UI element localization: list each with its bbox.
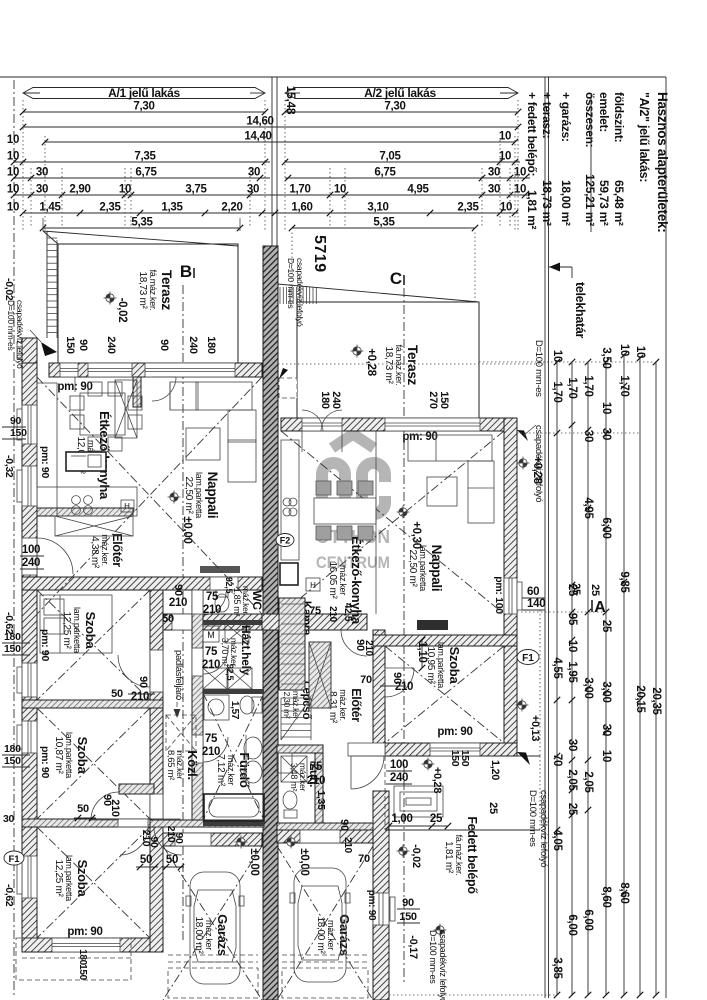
double door arcs A/2 terrace door (302, 410, 323, 431)
bedroom1-2 wall (22, 700, 163, 708)
svg-text:Szoba: Szoba (447, 647, 462, 685)
svg-text:lam.parketta: lam.parketta (64, 855, 74, 901)
south wall A/1 bedroom3 (22, 938, 163, 952)
svg-text:fá.máz.ker.: fá.máz.ker. (148, 270, 158, 311)
pantry shelves kamra (279, 598, 305, 690)
svg-text:5719: 5719 (311, 235, 328, 273)
svg-text:1,45: 1,45 (39, 202, 61, 214)
svg-text:75: 75 (310, 761, 323, 773)
east wall A/2 (504, 418, 517, 756)
svg-text:60: 60 (527, 586, 539, 598)
svg-text:1,35: 1,35 (315, 790, 327, 810)
svg-text:95: 95 (566, 613, 578, 626)
svg-text:10: 10 (499, 151, 511, 163)
svg-text:összesen:: összesen: (583, 92, 597, 147)
svg-text:75: 75 (206, 591, 219, 603)
stove A/2 (283, 498, 291, 506)
bottom dashed porch outline left (16, 938, 131, 980)
svg-text:25: 25 (570, 583, 582, 595)
svg-text:Előtér: Előtér (110, 533, 124, 567)
svg-text:Fedett belépő: Fedett belépő (465, 816, 479, 894)
centre wall (263, 246, 278, 1000)
top border line (0, 76, 666, 78)
svg-text:10: 10 (7, 151, 19, 163)
svg-text:lam.parketta: lam.parketta (72, 607, 82, 653)
door arc kamra (341, 630, 367, 656)
closet eloter A/1 (55, 516, 133, 536)
svg-text:7,12 m²: 7,12 m² (215, 754, 226, 787)
svg-text:100: 100 (390, 759, 408, 771)
right dim chain 3 (587, 362, 589, 995)
entry door opening west wall (22, 538, 37, 575)
right dim chain 2 (571, 362, 573, 995)
terrace A/1 outline (58, 244, 238, 363)
section line C dash-dot (403, 288, 405, 985)
svg-text:10: 10 (7, 167, 19, 179)
svg-text:5,35: 5,35 (131, 217, 153, 229)
corridor west wall (150, 590, 163, 952)
svg-text:+0,28: +0,28 (531, 456, 543, 485)
sofa A/2 (408, 435, 492, 461)
svg-text:1,57: 1,57 (229, 701, 240, 720)
svg-text:csapadékvíz lefolyó: csapadékvíz lefolyó (438, 930, 448, 1000)
svg-text:90: 90 (402, 897, 414, 909)
svg-text:1,70: 1,70 (566, 377, 578, 398)
svg-text:12,25 m²: 12,25 m² (61, 611, 72, 649)
svg-text:pm: 100: pm: 100 (493, 576, 505, 614)
svg-text:50: 50 (162, 613, 174, 625)
svg-text:150: 150 (4, 643, 21, 655)
svg-text:92,5: 92,5 (224, 577, 234, 594)
toilet furdo (240, 696, 254, 714)
svg-text:2,05: 2,05 (566, 769, 578, 791)
svg-text:92,5: 92,5 (225, 664, 235, 681)
door arc szoba2 (91, 792, 119, 820)
bedroom2-3 wall (22, 819, 163, 827)
svg-text:6,75: 6,75 (135, 167, 157, 179)
svg-text:75: 75 (205, 733, 218, 745)
vertical extension lines plan to top dims (42, 218, 44, 231)
svg-text:H: H (124, 502, 130, 511)
svg-text:50: 50 (166, 854, 178, 866)
svg-text:50: 50 (111, 688, 123, 700)
svg-text:12,25 m²: 12,25 m² (53, 859, 64, 897)
svg-text:75: 75 (309, 605, 321, 617)
svg-text:10: 10 (7, 202, 19, 214)
svg-text:WC: WC (250, 590, 264, 610)
svg-text:2,05: 2,05 (582, 771, 594, 793)
svg-text:4,38 m²: 4,38 m² (89, 536, 100, 569)
west wall A/1 (22, 363, 37, 952)
svg-text:Garázs: Garázs (215, 914, 230, 956)
dim 1,10 szoba A/2 (421, 640, 423, 668)
svg-text:D=100 mm-es: D=100 mm-es (527, 790, 538, 847)
svg-text:Hasznos alapterületek:: Hasznos alapterületek: (655, 92, 670, 232)
svg-text:10: 10 (600, 402, 612, 414)
svg-text:10: 10 (551, 350, 563, 362)
svg-text:30: 30 (600, 724, 612, 736)
wall pier szoba2 (119, 784, 154, 794)
ceiling cross furdo (203, 693, 264, 820)
svg-text:máz.ker: máz.ker (204, 920, 214, 950)
svg-text:Közl.: Közl. (185, 750, 200, 780)
svg-text:Előtér: Előtér (349, 688, 363, 722)
svg-text:240: 240 (22, 557, 40, 569)
svg-text:150: 150 (399, 911, 417, 923)
svg-text:csapadékvíz lefolyó: csapadékvíz lefolyó (295, 258, 305, 327)
svg-text:-0,32: -0,32 (3, 455, 15, 478)
kitchen sink A/1 (66, 452, 106, 471)
svg-text:10: 10 (566, 640, 578, 652)
svg-text:Terasz: Terasz (159, 270, 174, 311)
svg-text:3,75: 3,75 (185, 184, 207, 196)
svg-text:90: 90 (77, 339, 89, 351)
svg-text:máz.ker.: máz.ker. (338, 689, 348, 721)
svg-text:lam.parketta: lam.parketta (64, 732, 74, 778)
level +0,13 right (518, 701, 526, 709)
bedroom top wall A/1 (22, 577, 262, 590)
svg-text:210: 210 (202, 659, 220, 671)
svg-text:22,50 m²: 22,50 m² (407, 549, 418, 587)
svg-text:1,10: 1,10 (416, 641, 428, 662)
level 0,00 garage1 (237, 838, 245, 846)
bathtub furdo (204, 794, 264, 821)
svg-text:2,20: 2,20 (221, 202, 242, 214)
garage A/1 car (186, 872, 244, 984)
svg-text:10: 10 (514, 167, 526, 179)
svg-text:1,81 m²: 1,81 m² (443, 841, 454, 874)
svg-text:fá.máz.ker.: fá.máz.ker. (454, 835, 464, 876)
svg-text:25: 25 (430, 813, 443, 825)
section line B dash-dot (182, 285, 184, 940)
door arc szoba1 (118, 655, 150, 687)
svg-text:-0,17: -0,17 (407, 935, 419, 959)
dotted line terrace2 (266, 363, 545, 365)
svg-text:3,85: 3,85 (551, 957, 563, 979)
hazt bottom wall (203, 689, 264, 694)
svg-text:2,30 m²: 2,30 m² (282, 692, 292, 719)
garage A/2 top wall (277, 830, 373, 843)
door arc WC (203, 592, 226, 615)
F2 mark (276, 534, 294, 547)
level +0,30 A/2 (399, 508, 407, 516)
svg-text:3,10: 3,10 (367, 202, 388, 214)
svg-text:18,00 m²: 18,00 m² (193, 916, 204, 954)
unit2 entrance opening (348, 743, 385, 756)
H box A/1 (121, 500, 134, 512)
svg-text:42,5: 42,5 (342, 603, 353, 622)
svg-text:3,48 m²: 3,48 m² (289, 763, 299, 792)
toilet WC A/1 (215, 594, 229, 612)
svg-text:pm: 90: pm: 90 (67, 926, 102, 938)
svg-text:150: 150 (449, 750, 461, 767)
wc bottom wall (203, 620, 264, 625)
nappali bottom wall (150, 614, 367, 630)
svg-text:10: 10 (334, 184, 346, 196)
kitchen-nappali stub wall A/1 (133, 377, 141, 407)
dimension row 5,35 / 5,35 (43, 227, 240, 229)
svg-text:70: 70 (551, 754, 563, 766)
svg-text:75: 75 (205, 646, 218, 658)
door arc terrace A/1 (152, 377, 176, 401)
svg-text:4,95: 4,95 (582, 497, 594, 519)
svg-text:18,73 m²: 18,73 m² (137, 271, 148, 309)
svg-text:30: 30 (36, 184, 48, 196)
terrace A/1 roof diagonal (43, 231, 238, 246)
svg-text:4,95: 4,95 (407, 184, 429, 196)
svg-text:6,00: 6,00 (600, 517, 612, 538)
garage A/2 ceiling cross (277, 846, 373, 1000)
west wall stub terrace (22, 338, 37, 363)
bed szoba1 (40, 595, 112, 653)
twin sinks furdo (244, 737, 262, 759)
svg-text:90: 90 (137, 676, 149, 688)
svg-text:máz.ker: máz.ker (338, 565, 348, 595)
coffee table A/2 (427, 477, 457, 506)
svg-text:30: 30 (488, 167, 500, 179)
dimension row 7,30 / 7,30 (23, 111, 265, 113)
svg-text:Terasz: Terasz (405, 345, 420, 386)
unit2 szoba west wall (373, 630, 385, 756)
unit label arrow A/1 (23, 88, 265, 99)
svg-text:25: 25 (487, 802, 499, 814)
svg-text:180: 180 (4, 631, 21, 643)
svg-text:210: 210 (203, 604, 221, 616)
svg-text:Szoba: Szoba (83, 612, 98, 650)
svg-text:1,70: 1,70 (551, 381, 563, 402)
right dim chain 6 (639, 358, 641, 995)
svg-text:F1: F1 (522, 653, 534, 664)
svg-text:1,60: 1,60 (291, 202, 312, 214)
svg-text:telekhatár: telekhatár (573, 282, 587, 338)
kitchen-eloter wall A/1 (37, 508, 133, 516)
svg-text:7,30: 7,30 (384, 101, 405, 113)
property line left (dash-dot) (13, 80, 15, 995)
svg-text:270: 270 (427, 391, 439, 409)
svg-text:20,35: 20,35 (650, 687, 662, 715)
north wall A/1 (49, 363, 262, 377)
svg-text:18,00 m²: 18,00 m² (559, 180, 573, 226)
svg-text:D=100 mm-es: D=100 mm-es (533, 340, 544, 397)
extension lines top minor (30, 168, 32, 228)
svg-text:210: 210 (202, 746, 220, 758)
ramp arrow top left (41, 342, 57, 356)
svg-text:1,20: 1,20 (489, 760, 501, 780)
svg-text:5,35: 5,35 (373, 217, 395, 229)
svg-text:Nappali: Nappali (429, 545, 444, 592)
garage A/1 door dashes (168, 954, 258, 956)
stairs lepcso (281, 697, 311, 699)
svg-text:2,35: 2,35 (457, 202, 479, 214)
coffee table A/1 (186, 428, 220, 460)
svg-text:18,73 m²: 18,73 m² (383, 346, 394, 384)
washbasin zuh A/2 (277, 753, 292, 773)
svg-text:180: 180 (205, 336, 217, 354)
svg-text:A/2 jelű lakás: A/2 jelű lakás (364, 86, 436, 100)
svg-text:10: 10 (634, 346, 646, 358)
svg-text:100: 100 (22, 544, 40, 556)
svg-text:10: 10 (499, 131, 511, 143)
svg-text:6,00: 6,00 (582, 909, 594, 930)
svg-text:D=100 mm-es: D=100 mm-es (286, 258, 296, 308)
svg-text:-0,02: -0,02 (3, 278, 15, 301)
door arc corridor-garage right (154, 827, 182, 855)
svg-text:7,30: 7,30 (133, 101, 154, 113)
svg-text:1,70: 1,70 (618, 375, 630, 396)
svg-text:150: 150 (438, 391, 450, 409)
svg-text:1,70: 1,70 (582, 375, 594, 396)
svg-text:210: 210 (363, 640, 374, 657)
door arc szoba3 left (120, 827, 148, 855)
garage A/2 right wall (373, 791, 389, 1000)
svg-text:lam.parketta: lam.parketta (436, 642, 446, 688)
right border vertical line (665, 77, 667, 998)
svg-text:D=100 mm-es: D=100 mm-es (428, 930, 438, 984)
svg-text:1,35: 1,35 (161, 202, 183, 214)
svg-text:30: 30 (36, 167, 48, 179)
svg-text:10: 10 (7, 134, 19, 146)
terrace A/2 comb (279, 287, 281, 304)
svg-text:10,87 m²: 10,87 m² (53, 736, 64, 774)
dining table A/2 (314, 498, 376, 524)
svg-text:"A/2" jelű lakás:: "A/2" jelű lakás: (637, 92, 651, 182)
svg-text:150: 150 (4, 755, 21, 767)
washing machine M (203, 626, 219, 642)
svg-text:3,00: 3,00 (582, 677, 594, 698)
garage A/2 window (373, 893, 389, 925)
svg-text:csapadékvíz lefolyó: csapadékvíz lefolyó (15, 300, 25, 369)
svg-text:Garázs: Garázs (337, 914, 352, 956)
kitchen counter A/2 (281, 440, 299, 560)
dining table A/1 (80, 393, 125, 435)
right dim chain 7 (655, 362, 657, 995)
svg-text:Nappali: Nappali (205, 472, 220, 519)
svg-text:F1: F1 (8, 854, 20, 865)
svg-text:4,05: 4,05 (551, 829, 563, 851)
door arc szoba A/2 (385, 668, 414, 697)
unit2 szoba south wall (385, 743, 517, 756)
tv board A/1 (200, 566, 240, 573)
telekhatar double line (544, 77, 546, 998)
svg-text:90: 90 (148, 836, 160, 848)
terrace A/2 roof diagonal (266, 283, 479, 302)
terrace A/1 retaining comb (46, 231, 48, 338)
svg-text:25: 25 (600, 620, 612, 633)
svg-text:65,48 m²: 65,48 m² (612, 180, 626, 226)
north wall A/2 (281, 418, 517, 431)
sink A/2 (280, 563, 298, 585)
level -0,02 near entrance2 (399, 847, 407, 855)
svg-text:padlásfeljáró: padlásfeljáró (173, 650, 184, 700)
dimension row 1,45 2,35 1,35 2,20 / 1,60 3,10 2,35 (23, 212, 518, 214)
ceiling cross szoba1 (37, 590, 150, 700)
garage A/1 top wall (163, 833, 262, 846)
svg-text:-0,62: -0,62 (3, 884, 15, 907)
right dim chain 1 (556, 362, 558, 995)
svg-text:240: 240 (105, 336, 117, 354)
svg-text:pm: 90: pm: 90 (39, 446, 51, 479)
kamra shelf treads (281, 603, 305, 605)
svg-text:+0,30: +0,30 (410, 521, 422, 549)
floor boundary line A2 (375, 431, 377, 614)
svg-text:240: 240 (187, 336, 199, 354)
dimension row 14,60 (23, 126, 518, 128)
svg-text:14,40: 14,40 (244, 131, 271, 143)
svg-text:10: 10 (618, 344, 630, 356)
svg-text:C: C (390, 269, 402, 288)
svg-text:emelet:: emelet: (597, 92, 611, 132)
svg-text:30: 30 (566, 739, 578, 751)
svg-text:50: 50 (140, 854, 152, 866)
svg-text:4,55: 4,55 (551, 657, 563, 679)
svg-text:F2: F2 (280, 536, 291, 546)
right dim chain 4 (605, 362, 607, 995)
svg-text:8,60: 8,60 (618, 882, 630, 903)
svg-text:3,00: 3,00 (600, 681, 612, 702)
svg-text:B: B (180, 262, 192, 281)
svg-text:90: 90 (158, 339, 170, 351)
svg-text:210: 210 (395, 681, 413, 693)
tall cabinets A/1 (115, 380, 137, 438)
svg-text:H: H (310, 581, 316, 590)
svg-text:A/1 jelű lakás: A/1 jelű lakás (108, 86, 180, 100)
svg-text:pm: 90: pm: 90 (437, 726, 472, 738)
dimension row 6,75 / 6,75 (14, 177, 270, 179)
svg-text:8,60: 8,60 (600, 886, 612, 907)
svg-text:fá.máz.ker.: fá.máz.ker. (394, 345, 404, 386)
svg-text:csapadékvíz lefolyó: csapadékvíz lefolyó (538, 790, 549, 867)
level 0,00 A/1 (170, 493, 178, 501)
svg-text:14,60: 14,60 (246, 116, 273, 128)
svg-text:10: 10 (500, 202, 512, 214)
door arc entry A/1 (37, 538, 73, 574)
corridor east wall (192, 590, 203, 827)
right dim chain 5 (623, 355, 625, 995)
svg-text:földszint:: földszint: (612, 92, 626, 142)
svg-text:30: 30 (247, 184, 259, 196)
svg-text:lam.parketta: lam.parketta (194, 472, 204, 518)
svg-text:59,73 m²: 59,73 m² (597, 180, 611, 226)
level mark +0,28 terrace2 (353, 347, 361, 355)
svg-text:50: 50 (77, 803, 89, 815)
svg-text:210: 210 (131, 691, 149, 703)
svg-text:D=100 mm-es: D=100 mm-es (6, 300, 16, 350)
svg-text:pm: 90: pm: 90 (39, 629, 51, 662)
svg-text:22,50 m²: 22,50 m² (183, 476, 194, 514)
svg-text:10: 10 (600, 750, 612, 762)
svg-text:±0,00: ±0,00 (298, 848, 310, 875)
H box A/2 (306, 578, 320, 591)
level 0,00 garage2 (287, 838, 295, 846)
svg-text:2,35: 2,35 (99, 202, 121, 214)
svg-text:10: 10 (7, 184, 19, 196)
svg-text:Szoba: Szoba (75, 860, 90, 898)
svg-text:16,05 m²: 16,05 m² (327, 561, 338, 599)
stove A/1 (72, 496, 81, 505)
roof drain arrow top right (517, 430, 528, 441)
svg-text:6,75: 6,75 (374, 167, 396, 179)
svg-text:20,15: 20,15 (634, 685, 646, 713)
svg-text:30: 30 (582, 430, 594, 442)
svg-text:1,81 m²: 1,81 m² (525, 190, 539, 230)
unit label arrow A/2 (285, 88, 518, 99)
svg-text:+ garázs:: + garázs: (559, 92, 573, 142)
svg-text:lam.parketta: lam.parketta (418, 545, 428, 591)
svg-text:240: 240 (330, 391, 342, 409)
svg-text:6,00: 6,00 (566, 914, 578, 935)
svg-text:2,90: 2,90 (69, 184, 90, 196)
ceiling cross szoba A2 (385, 646, 504, 743)
